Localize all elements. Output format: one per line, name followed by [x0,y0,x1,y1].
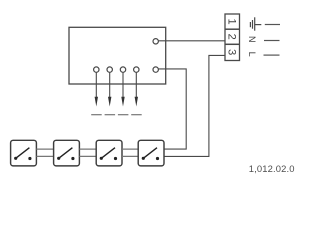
svg-text:L: L [247,52,257,57]
switch S2 box [54,140,80,166]
wire pair S3-S4 bottom [122,155,138,157]
wire output b down [109,73,111,100]
dash below arrow b [105,114,116,116]
wire pair S1-S2 bottom [36,155,53,157]
switch S1 right contact [28,157,31,160]
earth wire dash [265,24,280,26]
earth symbol stem [255,24,262,26]
switch S1 box [11,140,37,166]
switch S4 lever [143,148,157,159]
arrow output c [121,97,124,107]
switch S4 left contact [142,157,145,160]
switch S3 lever [101,148,115,159]
wire pair S2-S3 bottom [79,155,96,157]
right terminal circle top [153,39,158,44]
wire top circle to terminal 2 [159,40,225,42]
earth symbol middle bar [252,20,254,29]
wire output d down [135,73,137,100]
switch S1 left contact [14,157,17,160]
wire pair S2-S3 top [79,148,96,150]
wire pair S1-S2 top [36,148,53,150]
switch S4 box [138,140,164,166]
arrow output d [135,97,138,107]
switch S3 box [96,140,122,166]
arrow output a [95,97,98,107]
terminal block divider 1/2 [225,28,240,30]
dash below arrow a [91,114,102,116]
svg-text:2: 2 [226,34,238,40]
L wire dash [264,54,280,56]
output terminal circle c [120,67,125,72]
right terminal circle bottom [153,67,158,72]
earth symbol long bar [254,17,256,30]
output terminal circle d [134,67,139,72]
svg-text:N: N [247,36,257,43]
wire output c down [122,73,124,100]
switch S1 lever [16,148,30,159]
wire pair S3-S4 top [122,148,138,150]
N wire dash [264,40,280,42]
wire output a down [95,73,97,100]
svg-text:1,012.02.0: 1,012.02.0 [249,163,295,174]
switch S4 right contact [156,157,159,160]
output terminal circle a [94,67,99,72]
output terminal circle b [107,67,112,72]
earth symbol short bar [249,22,251,27]
wire bottom circle to switch chain [159,69,187,149]
terminal block TB outline [225,14,240,61]
switch S2 right contact [71,157,74,160]
terminal block divider 2/3 [225,43,240,45]
switch S3 left contact [100,157,103,160]
switch S2 left contact [57,157,60,160]
wire terminal 3 to switch chain [164,55,225,156]
switch S3 right contact [114,157,117,160]
dash below arrow c [118,114,128,116]
controller box U1 [69,27,166,84]
switch S2 lever [59,148,73,159]
dash below arrow d [131,114,142,116]
arrow output b [108,97,111,107]
svg-text:1: 1 [226,19,238,25]
svg-text:3: 3 [226,49,238,55]
